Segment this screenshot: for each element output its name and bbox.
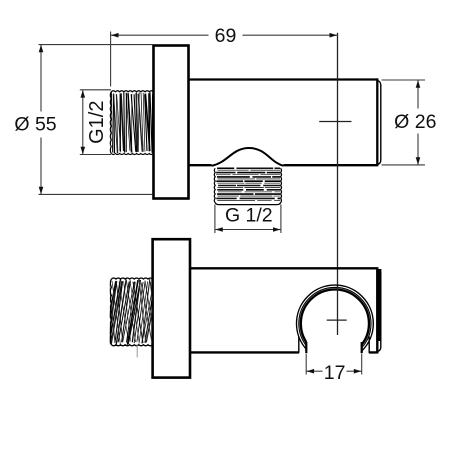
dimension Ø55: top arrow xyxy=(39,45,44,53)
dimension Ø26: bottom extension line xyxy=(382,164,426,166)
dimension 17: dimension line xyxy=(307,370,362,372)
shower holder ring: middle circle xyxy=(299,287,371,359)
dimension G1/2 inlet: top arrow xyxy=(81,90,86,98)
dimension G1/2 inlet: bottom extension line xyxy=(80,154,111,156)
end cap edge (top view) xyxy=(378,81,381,165)
dimension 69: left arrow xyxy=(111,33,119,38)
outlet transition hump (top view) xyxy=(212,148,284,166)
dimension 69: right arrow xyxy=(330,33,338,38)
dimension 69: dimension line xyxy=(111,34,338,36)
thread relief line (bottom view) xyxy=(136,344,138,358)
svg-text:69: 69 xyxy=(215,25,237,47)
dimension Ø26: dimension line xyxy=(417,80,419,164)
end cap edge (bottom view) xyxy=(376,269,381,352)
dimension 17: right arrow xyxy=(354,369,362,374)
center mark cross (bottom view) xyxy=(327,319,347,321)
body cylinder (top view) xyxy=(189,78,378,166)
dimension G 1/2 outlet: right extension line xyxy=(280,205,282,234)
dimension Ø55: bottom arrow xyxy=(39,187,44,195)
dimension G 1/2 outlet: dimension line xyxy=(215,229,280,231)
dimension Ø55: dimension line xyxy=(40,45,42,194)
svg-text:Ø 26: Ø 26 xyxy=(394,111,436,133)
svg-text:G 1/2: G 1/2 xyxy=(225,205,273,227)
holder left jaw xyxy=(299,337,307,354)
dimension Ø55: bottom extension line xyxy=(39,193,153,195)
holder right jaw xyxy=(362,337,370,354)
svg-text:G1/2: G1/2 xyxy=(86,101,108,144)
svg-text:17: 17 xyxy=(324,362,346,384)
dimension G1/2 inlet: dimension line xyxy=(82,90,84,154)
dimension G1/2 inlet: bottom arrow xyxy=(81,147,86,155)
dimension G1/2 inlet: top extension line xyxy=(80,89,111,91)
center mark cross (top view) xyxy=(319,121,351,123)
shower holder ring: inner circle xyxy=(301,289,369,357)
dimension G 1/2 outlet: left arrow xyxy=(215,227,223,232)
dimension G 1/2 outlet: left extension line xyxy=(214,205,216,234)
dimension 69: left extension line xyxy=(110,32,112,87)
dimension 17: left extension line xyxy=(305,354,307,375)
dimension G 1/2 outlet: right arrow xyxy=(273,227,281,232)
outlet axis line through holder xyxy=(337,287,339,336)
outlet axis line xyxy=(337,33,339,335)
dimension Ø55: top extension line xyxy=(39,44,153,46)
wall flange (top view) xyxy=(154,46,189,199)
svg-text:Ø 55: Ø 55 xyxy=(14,114,56,136)
shower holder ring: outer circle xyxy=(297,285,374,362)
holder opening (white gap) xyxy=(307,338,361,364)
wall flange (bottom view) xyxy=(153,239,190,377)
body cylinder (bottom view) xyxy=(190,267,377,353)
dimension Ø26: top extension line xyxy=(382,79,426,81)
dimension 17: right extension line xyxy=(361,354,363,375)
dimension Ø26: top arrow xyxy=(416,80,421,88)
dimension Ø26: bottom arrow xyxy=(416,157,421,165)
dimension 17: left arrow xyxy=(307,369,315,374)
